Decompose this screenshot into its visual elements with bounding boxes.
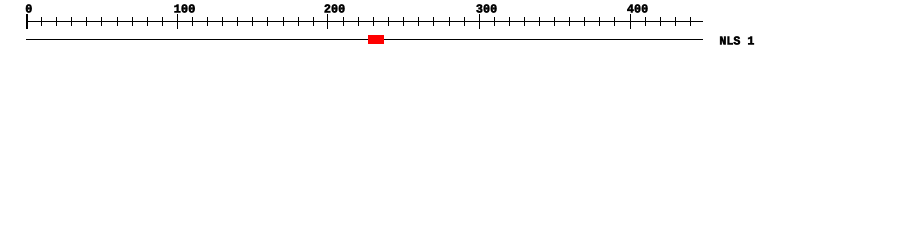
svg-text:100: 100 [174,2,196,16]
major tick 400 [630,14,631,29]
protein feature map: ruler + sequence line with NLS annotation [0,0,900,58]
NLS 1 feature box (red) [368,35,384,44]
svg-text:0: 0 [25,2,32,16]
svg-text:300: 300 [476,2,497,16]
svg-text:200: 200 [324,2,345,16]
sequence line [26,39,703,40]
major tick 100 [177,14,178,29]
ruler axis line [26,21,703,22]
major tick 300 [479,14,480,29]
major tick 200 [327,14,328,29]
major tick 0 [26,14,28,29]
svg-text:400: 400 [627,2,648,16]
svg-text:NLS 1: NLS 1 [719,34,754,48]
minor ticks every 10 residues [41,17,42,26]
